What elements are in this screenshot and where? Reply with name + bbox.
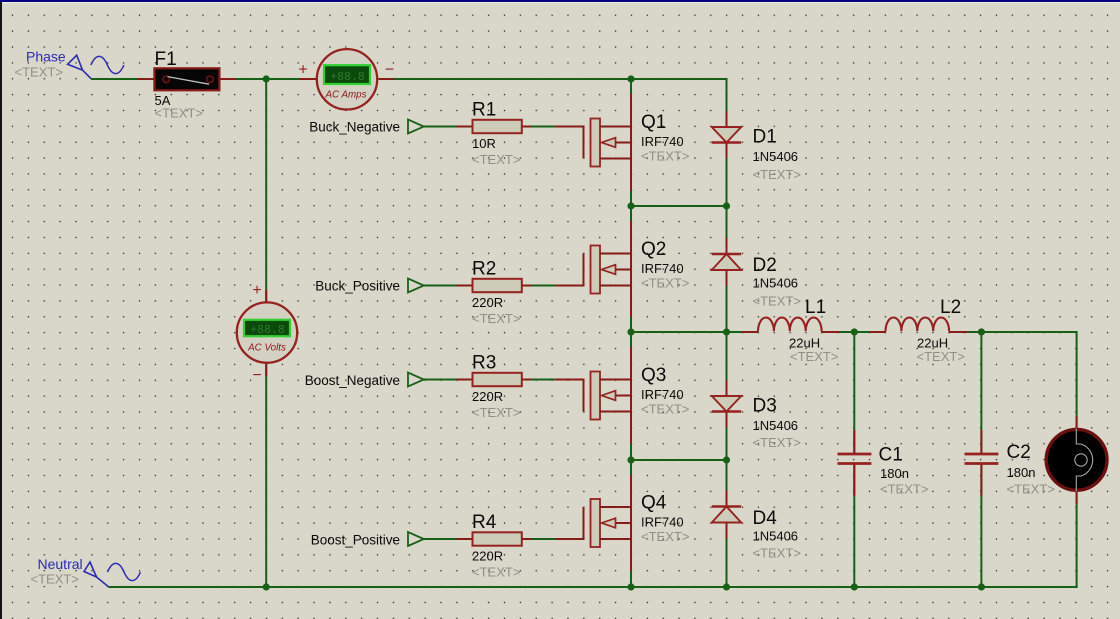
- svg-text:1N5406: 1N5406: [753, 529, 799, 544]
- junction node (726.5,332): [723, 328, 730, 335]
- wire MOSFET drain/source column x=631: [630, 79, 632, 587]
- transistor Q4 IRF740: [591, 493, 690, 548]
- svg-text:C2: C2: [1007, 442, 1031, 463]
- wire R3 gate row: [424, 380, 585, 412]
- svg-text:D1: D1: [753, 127, 777, 148]
- junction node (726.5,206): [723, 202, 730, 209]
- inductor L2 22uH: [886, 297, 965, 364]
- svg-text:Buck_Positive: Buck_Positive: [315, 279, 400, 294]
- svg-text:+: +: [298, 62, 307, 79]
- svg-text:Phase: Phase: [26, 49, 66, 65]
- transistor Q3 IRF740: [591, 365, 690, 420]
- junction node (631,587): [627, 583, 634, 590]
- wire lamp column x=1076.6: [1076, 331, 1078, 588]
- svg-text:<TEXT>: <TEXT>: [753, 546, 801, 561]
- svg-text:IRF740: IRF740: [641, 387, 684, 402]
- wire output rail y=332 to L1 L2 C1 C2 lamp: [631, 331, 1077, 333]
- svg-text:<TEXT>: <TEXT>: [1007, 482, 1055, 497]
- svg-text:<TEXT>: <TEXT>: [641, 529, 689, 544]
- svg-text:R3: R3: [472, 353, 496, 374]
- svg-text:AC Amps: AC Amps: [324, 90, 366, 101]
- wire phase to fuse and ammeter (top rail left): [91, 78, 316, 80]
- junction node (631,79): [627, 75, 634, 82]
- svg-text:<TEXT>: <TEXT>: [31, 572, 79, 587]
- terminal Neutral (AC return): [31, 556, 141, 587]
- junction node (631,206): [627, 202, 634, 209]
- svg-text:−: −: [252, 367, 261, 384]
- wire bottom neutral rail y=587: [109, 586, 1078, 588]
- wire C1 column x=854.3: [853, 332, 855, 587]
- svg-text:+: +: [252, 282, 261, 299]
- junction node (981.4,332): [978, 328, 985, 335]
- junction node (854.3,587): [851, 583, 858, 590]
- svg-text:10R: 10R: [472, 136, 496, 151]
- junction node (726.5,460): [723, 456, 730, 463]
- terminal Phase (AC source): [15, 49, 124, 80]
- left window border: [0, 2, 2, 619]
- wire ammeter to Q1 drain and D1 (top rail right): [378, 78, 727, 80]
- ammeter AC Amps: [298, 49, 394, 109]
- svg-text:R2: R2: [472, 259, 496, 280]
- svg-text:Q1: Q1: [641, 112, 666, 133]
- svg-text:<TEXT>: <TEXT>: [641, 402, 689, 417]
- svg-text:180n: 180n: [1007, 465, 1036, 480]
- svg-text:1N5406: 1N5406: [753, 149, 799, 164]
- svg-text:L1: L1: [805, 297, 826, 318]
- svg-text:220R: 220R: [472, 389, 503, 404]
- transistor Q2 IRF740: [591, 239, 690, 294]
- svg-text:180n: 180n: [880, 466, 909, 481]
- svg-text:<TEXT>: <TEXT>: [641, 276, 689, 291]
- resistor R1: [472, 100, 522, 168]
- junction node (266.2,587): [263, 583, 270, 590]
- svg-text:C1: C1: [879, 445, 903, 466]
- svg-text:+88.8: +88.8: [330, 71, 365, 84]
- svg-text:<TEXT>: <TEXT>: [15, 65, 63, 80]
- svg-text:220R: 220R: [472, 295, 503, 310]
- transistor Q1 IRF740: [591, 112, 690, 167]
- svg-text:L2: L2: [940, 297, 961, 318]
- wire R1 gate row: [424, 127, 585, 159]
- junction node (266.2,79): [263, 75, 270, 82]
- svg-text:IRF740: IRF740: [641, 134, 684, 149]
- svg-text:IRF740: IRF740: [641, 261, 684, 276]
- lamp load: [1046, 429, 1107, 492]
- svg-text:<TEXT>: <TEXT>: [753, 435, 801, 450]
- voltmeter AC Volts: [237, 282, 297, 384]
- wire C2 column x=981.4: [980, 332, 982, 587]
- capacitor C2 180n: [965, 442, 1055, 497]
- svg-text:Neutral: Neutral: [38, 556, 83, 572]
- wire R4 gate row: [424, 507, 585, 539]
- svg-text:R1: R1: [472, 100, 496, 121]
- resistor R4: [472, 512, 522, 580]
- terminal Buck_Positive: [315, 279, 424, 294]
- svg-text:<TEXT>: <TEXT>: [917, 349, 965, 364]
- wire R2 gate row: [424, 254, 585, 286]
- svg-text:<TEXT>: <TEXT>: [641, 149, 689, 164]
- svg-text:−: −: [385, 62, 394, 79]
- terminal Boost_Negative: [305, 373, 424, 389]
- inductor L1 22uH: [758, 297, 838, 364]
- svg-text:Q2: Q2: [641, 239, 666, 260]
- capacitor C1 180n: [838, 445, 929, 497]
- svg-text:220R: 220R: [472, 549, 503, 564]
- diode D4 1N5406: [712, 507, 801, 561]
- diode D3 1N5406: [712, 396, 801, 451]
- junction node (981.4,587): [978, 583, 985, 590]
- svg-text:<TEXT>: <TEXT>: [753, 167, 801, 182]
- svg-text:<TEXT>: <TEXT>: [472, 405, 520, 420]
- junction node (726.5,587): [723, 583, 730, 590]
- svg-text:Boost_Negative: Boost_Negative: [305, 373, 400, 388]
- wire diode column x=726.5: [726, 78, 728, 587]
- svg-text:+88.8: +88.8: [250, 324, 285, 337]
- fuse F1 5A: [154, 49, 219, 121]
- svg-text:Q3: Q3: [641, 365, 666, 386]
- svg-text:<TEXT>: <TEXT>: [155, 106, 203, 121]
- svg-text:F1: F1: [155, 49, 177, 70]
- resistor R2: [472, 259, 522, 327]
- svg-text:Boost_Positive: Boost_Positive: [311, 533, 400, 548]
- junction node (631,460): [627, 456, 634, 463]
- wire rail Q3/Q4 junction y=460: [631, 459, 727, 461]
- svg-text:AC Volts: AC Volts: [247, 343, 286, 354]
- svg-text:<TEXT>: <TEXT>: [753, 294, 801, 309]
- resistor R3: [472, 353, 522, 421]
- svg-text:<TEXT>: <TEXT>: [472, 152, 520, 167]
- diode D1 1N5406: [712, 127, 801, 183]
- svg-text:R4: R4: [472, 512, 497, 533]
- terminal Buck_Negative: [309, 120, 424, 135]
- svg-text:D4: D4: [753, 508, 778, 529]
- svg-text:Buck_Negative: Buck_Negative: [309, 120, 400, 135]
- svg-text:<TEXT>: <TEXT>: [472, 565, 520, 580]
- top window border: [0, 0, 1120, 3]
- terminal Boost_Positive: [311, 532, 424, 548]
- junction node (854.3,332): [851, 328, 858, 335]
- svg-text:IRF740: IRF740: [641, 515, 684, 530]
- wire voltmeter branch column: [265, 78, 267, 588]
- diode D2 1N5406: [712, 254, 801, 309]
- svg-text:<TEXT>: <TEXT>: [790, 349, 838, 364]
- svg-text:Q4: Q4: [641, 493, 667, 514]
- svg-text:1N5406: 1N5406: [753, 276, 799, 291]
- svg-text:<TEXT>: <TEXT>: [880, 482, 928, 497]
- svg-text:D3: D3: [753, 396, 777, 417]
- wire rail Q1/Q2 junction y=206: [631, 205, 727, 207]
- svg-text:<TEXT>: <TEXT>: [472, 311, 520, 326]
- svg-text:1N5406: 1N5406: [753, 418, 799, 433]
- junction node (631,332): [627, 328, 634, 335]
- svg-text:D2: D2: [753, 255, 777, 276]
